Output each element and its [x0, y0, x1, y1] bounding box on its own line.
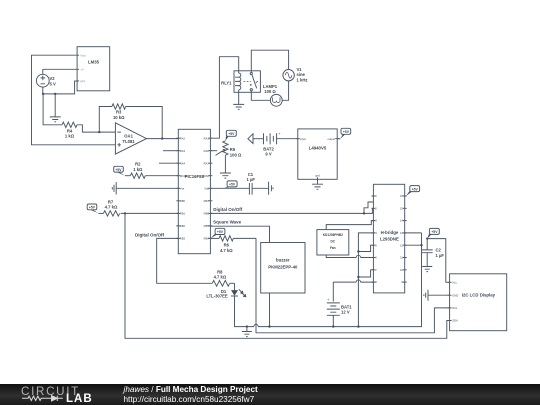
- +5V flag (LCD supply): [427, 228, 439, 238]
- svg-text:Fan: Fan: [330, 246, 336, 250]
- svg-text:Square Wave: Square Wave: [213, 220, 242, 225]
- battery BAT1 12V: [327, 282, 352, 326]
- svg-text:15: 15: [400, 206, 403, 210]
- svg-text:Vout: Vout: [80, 53, 86, 57]
- svg-text:RA2: RA2: [180, 136, 186, 140]
- DC fan KD1206PHB2: [317, 230, 349, 255]
- footer bar: [0, 384, 540, 405]
- svg-text:1 kHz: 1 kHz: [297, 78, 308, 83]
- svg-text:Vss: Vss: [180, 186, 185, 190]
- node digital junction: [363, 212, 365, 214]
- svg-text:2: 2: [375, 206, 377, 210]
- capacitor C2 1 uF: [422, 239, 445, 267]
- svg-text:RLY1: RLY1: [221, 81, 232, 86]
- svg-text:SDA: SDA: [452, 319, 458, 323]
- wire RB3 to R8 (digital on/off): [157, 238, 213, 283]
- svg-text:5 V: 5 V: [50, 82, 56, 87]
- svg-text:gnd: gnd: [315, 173, 320, 177]
- node op-amp output junction: [161, 137, 163, 139]
- wire fan top to H-bridge pin 3: [326, 221, 373, 230]
- svg-text:R5: R5: [230, 147, 236, 152]
- +5V flag (regulator output): [337, 128, 351, 138]
- H-bridge L293DNE: [371, 184, 406, 293]
- footer title text: [124, 385, 258, 394]
- svg-text:TL081: TL081: [123, 139, 136, 144]
- microcontroller PIC16F88: [176, 129, 212, 253]
- svg-text:PKM22EPP-40: PKM22EPP-40: [268, 264, 298, 269]
- ground (LCD GND, left-pointing): [424, 290, 450, 301]
- svg-text:R3: R3: [116, 110, 122, 115]
- node ground junction: [54, 93, 56, 95]
- svg-text:13: 13: [400, 231, 403, 235]
- node pin12 junction: [420, 244, 422, 246]
- logo resistor-diode glyph: [22, 396, 52, 400]
- svg-text:L4940V5: L4940V5: [309, 145, 327, 150]
- svg-text:RA0: RA0: [204, 149, 210, 153]
- svg-text:4: 4: [375, 231, 377, 235]
- battery BAT2 9V: [248, 131, 298, 156]
- svg-text:10: 10: [400, 268, 403, 272]
- wire ground drop: [54, 94, 56, 117]
- buzzer PKM22EPP-40: [261, 243, 305, 294]
- svg-text:1 µF: 1 µF: [246, 177, 255, 182]
- ground (relay coil): [233, 92, 244, 109]
- svg-text:RA6: RA6: [204, 174, 210, 178]
- wire LM35 gnd down to V2 bottom rail: [43, 81, 75, 94]
- footer url text: [124, 395, 255, 404]
- svg-text:GND: GND: [452, 293, 458, 297]
- svg-text:Digital On/Off: Digital On/Off: [135, 233, 164, 238]
- rheostat R5 100 Ohm: [210, 141, 242, 158]
- svg-text:4.7 kΩ: 4.7 kΩ: [105, 205, 118, 210]
- svg-text:16: 16: [400, 194, 403, 198]
- svg-text:RB6: RB6: [204, 212, 210, 216]
- wire LM35 +V to V2: [43, 68, 75, 70]
- svg-text:RB1: RB1: [180, 212, 186, 216]
- svg-text:+5V: +5V: [431, 230, 438, 234]
- wire H-bridge gnd net (pins 4,5,7 to rail): [358, 233, 373, 327]
- svg-text:RB3: RB3: [180, 237, 186, 241]
- op-amp OA1 TL081: [115, 123, 146, 154]
- svg-text:6: 6: [375, 256, 377, 260]
- wire H-bridge pins 13,12 to gnd rail: [405, 233, 422, 245]
- svg-text:output: output: [328, 137, 336, 141]
- svg-text:12 V: 12 V: [341, 310, 350, 315]
- node pin7 junction: [357, 276, 359, 278]
- svg-text:+5V: +5V: [229, 183, 236, 187]
- svg-text:+5V: +5V: [343, 130, 350, 134]
- svg-text:10 kΩ: 10 kΩ: [113, 115, 125, 120]
- wire RB6 to H-bridge pins 1,2: [210, 202, 373, 213]
- wire +5V to LCD VLL: [427, 239, 449, 283]
- wire op-amp output to PIC RA2: [147, 138, 179, 140]
- wire hop (R6 line over gnd rail): [254, 324, 258, 326]
- +5V flag (Vdd): [224, 181, 237, 188]
- +5V flag (R5 top): [225, 130, 236, 141]
- svg-text:gnd: gnd: [80, 79, 85, 83]
- svg-text:buzzer: buzzer: [276, 257, 290, 262]
- svg-text:+5V: +5V: [89, 206, 96, 210]
- voltage regulator L4940V5: [296, 129, 339, 181]
- svg-text:L293DNE: L293DNE: [380, 237, 399, 242]
- svg-text:RA4: RA4: [180, 161, 186, 165]
- svg-text:+5V: +5V: [217, 230, 224, 234]
- svg-text:VLL: VLL: [452, 280, 457, 284]
- svg-text:PIC16F88: PIC16F88: [185, 174, 205, 179]
- wire SDA rail (R7 down, across to LCD SDA): [125, 213, 450, 338]
- wire RA4 stub: [159, 162, 178, 164]
- resistor R4 1 kOhm: [43, 94, 115, 139]
- lamp LAMP1 100 Ohm: [263, 84, 282, 106]
- svg-text:RA3: RA3: [180, 149, 186, 153]
- capacitor C1 1 uF: [246, 172, 268, 195]
- svg-text:RB5: RB5: [204, 224, 210, 228]
- svg-text:3: 3: [375, 219, 377, 223]
- svg-text:1 kΩ: 1 kΩ: [133, 167, 143, 172]
- svg-text:input: input: [300, 137, 306, 141]
- +5V flag (R7): [87, 204, 98, 213]
- node pin5 junction: [357, 250, 359, 252]
- svg-text:1 kΩ: 1 kΩ: [65, 134, 75, 139]
- I2C LCD Display: [448, 274, 507, 331]
- wire hop (pin6 wire over gnd vertical): [356, 255, 360, 257]
- wire LED cathode to ground rail: [235, 233, 422, 327]
- svg-text:4.7 kΩ: 4.7 kΩ: [214, 275, 227, 280]
- relay RLY1: [221, 71, 260, 93]
- svg-text:4.7 kΩ: 4.7 kΩ: [220, 248, 233, 253]
- ground (rail): [242, 325, 252, 336]
- svg-text:+: +: [327, 297, 330, 302]
- wire fan bottom to H-bridge pin 6: [326, 255, 373, 258]
- svg-text:LM35: LM35: [88, 59, 100, 64]
- svg-text:SCL: SCL: [452, 306, 458, 310]
- resistor R8 4.7 kOhm: [212, 269, 234, 286]
- svg-text:RB4: RB4: [204, 237, 210, 241]
- svg-text:H-bridge: H-bridge: [381, 230, 399, 235]
- svg-text:1: 1: [375, 194, 377, 198]
- svg-text:9 V: 9 V: [265, 152, 271, 157]
- svg-text:sine: sine: [297, 72, 306, 77]
- resistor R3 10 kOhm feedback: [99, 104, 162, 139]
- svg-text:+5V: +5V: [228, 132, 235, 136]
- wire LM35 Vout to op-amp + input: [32, 55, 116, 145]
- svg-text:+5V: +5V: [412, 187, 419, 191]
- svg-text:14: 14: [400, 219, 403, 223]
- wire hop (pin8 wire over gnd vertical): [356, 280, 360, 282]
- +5V flag (H-bridge VCC1 pin 16): [406, 186, 420, 196]
- svg-text:1 µF: 1 µF: [436, 253, 445, 258]
- svg-text:RA1: RA1: [204, 136, 210, 140]
- svg-text:Vdd: Vdd: [204, 186, 209, 190]
- svg-text:RA7: RA7: [204, 161, 210, 165]
- wire buzzer bottom to ground rail: [269, 293, 271, 327]
- resistor R2 1 kOhm: [125, 162, 178, 179]
- svg-text:RB2: RB2: [180, 224, 186, 228]
- ground (R5 bottom): [220, 158, 231, 179]
- wire R6 down to SCL rail to LCD SCL: [256, 238, 450, 332]
- wire relay switch bottom to lamp: [251, 91, 270, 101]
- node R7 junction: [124, 212, 126, 214]
- ground (C1, right-pointing): [269, 182, 273, 195]
- wire RA3 stub: [163, 150, 178, 152]
- wire V1 bottom to lamp right: [282, 81, 288, 100]
- svg-text:KD1206PHB2: KD1206PHB2: [323, 233, 343, 237]
- svg-text:7: 7: [375, 268, 377, 272]
- voltage source V1 sine: [283, 67, 308, 83]
- svg-text:5: 5: [375, 243, 377, 247]
- ground (regulator): [312, 179, 323, 189]
- CircuitLab logo: [21, 385, 80, 398]
- svg-text:RB0: RB0: [180, 199, 186, 203]
- svg-text:+: +: [278, 131, 281, 136]
- node BAT1-gnd junction: [332, 325, 334, 327]
- voltage source V2: [36, 69, 56, 94]
- svg-text:11: 11: [400, 256, 403, 260]
- svg-text:8: 8: [375, 280, 377, 284]
- wire relay coil to PIC RA1: [210, 57, 238, 139]
- node buzzer-gnd junction: [268, 325, 270, 327]
- wire Vdd to C1: [210, 187, 249, 189]
- svg-text:V1: V1: [297, 67, 303, 72]
- svg-text:+V: +V: [80, 67, 84, 71]
- svg-text:V2: V2: [50, 76, 56, 81]
- wire relay switch top to V1: [251, 50, 288, 72]
- ground (C2): [422, 267, 432, 272]
- +5V flag (MCLR): [114, 166, 125, 175]
- +5V flag (R6): [210, 228, 225, 238]
- svg-text:12: 12: [400, 243, 403, 247]
- svg-text:OA1: OA1: [124, 134, 133, 139]
- svg-text:MCLR: MCLR: [180, 174, 188, 178]
- node op-amp inverting input junction: [98, 131, 100, 133]
- svg-text:+5V: +5V: [115, 168, 122, 172]
- resistor R7 4.7 kOhm: [98, 199, 178, 216]
- svg-text:I2C LCD Display: I2C LCD Display: [462, 292, 496, 297]
- svg-text:LTL-307EE: LTL-307EE: [206, 293, 228, 298]
- LM35 temperature sensor: [75, 47, 110, 91]
- LED D1 LTL-307EE: [206, 283, 245, 298]
- svg-text:DC: DC: [330, 240, 335, 244]
- svg-text:Digital On/Off: Digital On/Off: [213, 207, 242, 212]
- ground (V2): [50, 117, 61, 122]
- node V2-bottom junction: [42, 93, 44, 95]
- node gnd-rail junction: [357, 325, 359, 327]
- wire BAT1+ to H-bridge pin 8: [333, 281, 373, 283]
- wire RB5 to buzzer (square wave): [210, 226, 269, 242]
- svg-text:100 Ω: 100 Ω: [230, 152, 242, 157]
- ground (Vss, left-pointing): [112, 182, 178, 194]
- resistor R6 4.7 kOhm: [210, 236, 256, 253]
- svg-text:RB7: RB7: [204, 199, 210, 203]
- svg-text:100 Ω: 100 Ω: [264, 89, 276, 94]
